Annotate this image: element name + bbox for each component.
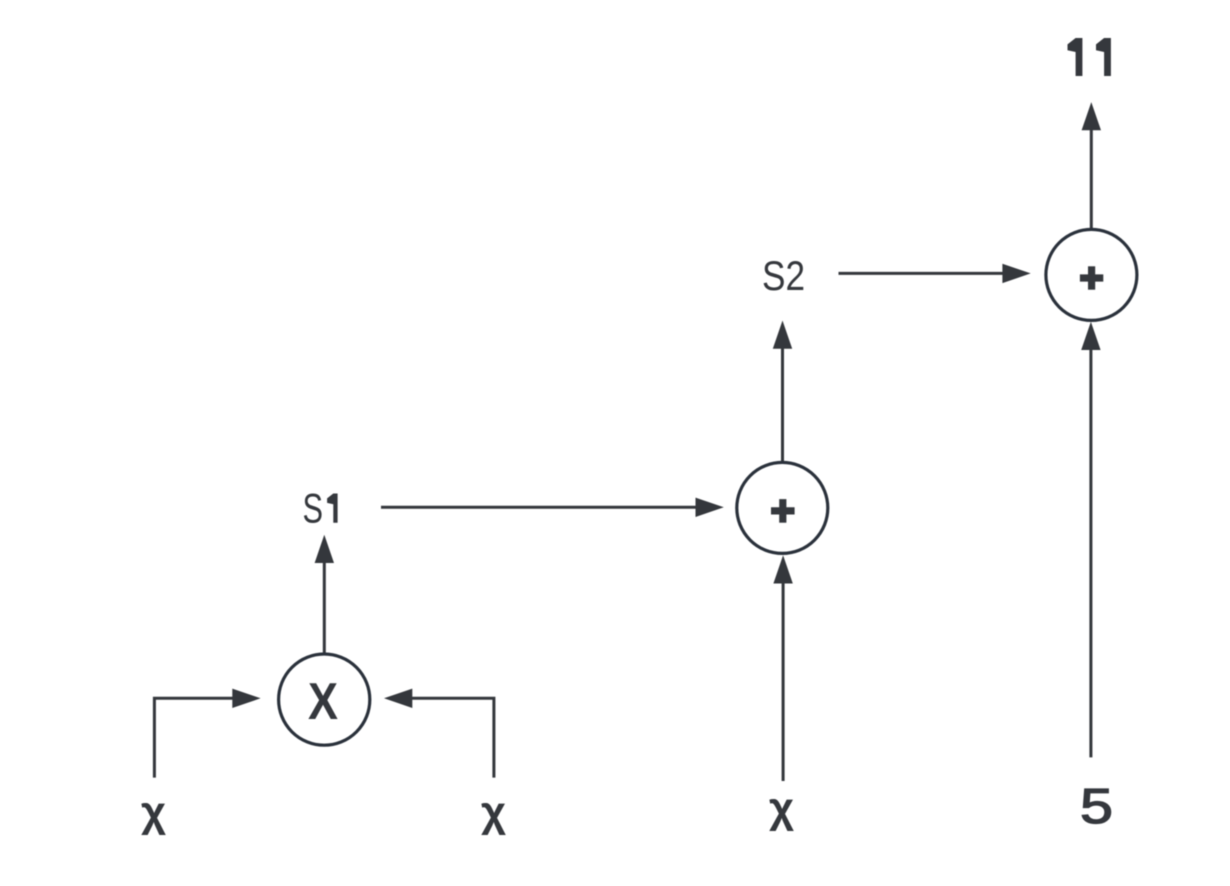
svg-text:S2: S2 xyxy=(762,252,805,299)
svg-text:χ: χ xyxy=(141,788,166,836)
svg-text:S: S xyxy=(303,485,324,532)
svg-text:χ: χ xyxy=(481,788,506,836)
svg-text:χ: χ xyxy=(769,784,794,832)
svg-text:X: X xyxy=(308,673,338,731)
svg-text:5: 5 xyxy=(1080,779,1113,834)
